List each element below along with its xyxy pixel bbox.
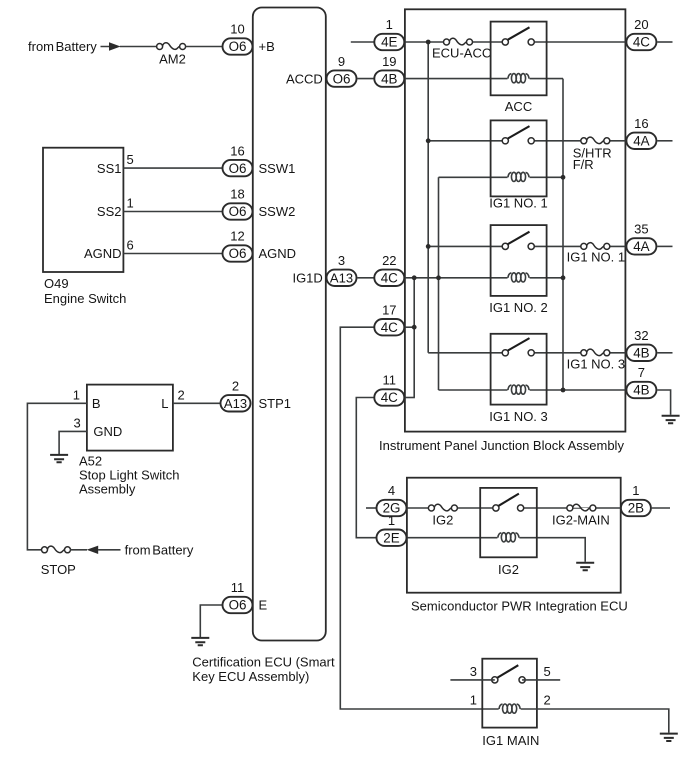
svg-text:IG2-MAIN: IG2-MAIN (552, 512, 610, 527)
wire IG1 NO.1 switch line (428, 140, 627, 142)
svg-text:SS2: SS2 (97, 204, 122, 219)
svg-text:1: 1 (470, 693, 477, 708)
svg-text:IG2: IG2 (432, 512, 453, 527)
fuse ECU-ACC (444, 38, 473, 45)
svg-text:SSW2: SSW2 (259, 204, 296, 219)
svg-text:A13: A13 (224, 396, 247, 411)
svg-text:1: 1 (388, 513, 395, 528)
node rail NO.1 switch (426, 138, 431, 143)
fuse IG2-MAIN (567, 504, 596, 511)
svg-text:Stop Light Switch: Stop Light Switch (79, 468, 179, 483)
relay IG1 NO. 3 (489, 334, 548, 424)
ground stop light switch (50, 455, 68, 462)
wire rail 4C17-4C11 (413, 278, 415, 398)
wire L to A13 (173, 402, 221, 404)
node 4C17 rail (412, 325, 417, 330)
svg-text:O6: O6 (229, 598, 247, 613)
svg-text:1: 1 (127, 196, 134, 211)
svg-text:IG1D: IG1D (292, 271, 322, 286)
Certification ECU box (253, 8, 326, 641)
svg-text:4A: 4A (633, 134, 649, 149)
wire GND pin to ground (59, 431, 87, 454)
ground IG2 (576, 563, 594, 570)
svg-text:5: 5 (544, 664, 551, 679)
svg-text:6: 6 (127, 238, 134, 253)
connector 4C pin 11 (374, 373, 404, 406)
ground IG1 MAIN (660, 734, 678, 741)
svg-text:2: 2 (544, 693, 551, 708)
svg-text:O6: O6 (229, 204, 247, 219)
wire AGND (123, 253, 223, 255)
svg-text:SSW1: SSW1 (259, 161, 296, 176)
svg-text:17: 17 (382, 302, 396, 317)
wire IG1 MAIN coil to ground (521, 709, 669, 733)
wire 2G stub (366, 507, 376, 509)
fuse S/HTR F/R (581, 137, 610, 144)
svg-text:Engine Switch: Engine Switch (44, 291, 126, 306)
connector O6 pin 10 (+B) (223, 22, 253, 55)
svg-text:O49: O49 (44, 276, 69, 291)
wire IG1 NO.1 coil line (439, 176, 564, 178)
wire IG1 NO.3 switch line (428, 352, 627, 354)
svg-text:AM2: AM2 (159, 52, 186, 67)
connector 4A pin 16 (626, 116, 672, 149)
connector 4A pin 35 (626, 222, 672, 255)
svg-text:5: 5 (127, 152, 134, 167)
svg-text:GND: GND (93, 424, 122, 439)
svg-text:STOP: STOP (41, 562, 76, 577)
svg-text:IG1 NO. 1: IG1 NO. 1 (567, 250, 626, 265)
wire 4C11 external to 2E (356, 398, 376, 538)
svg-text:O6: O6 (229, 161, 247, 176)
svg-text:L: L (161, 396, 168, 411)
wire IG1D to 4C (357, 277, 374, 279)
svg-text:4C: 4C (381, 271, 398, 286)
svg-text:19: 19 (382, 54, 396, 69)
svg-text:1: 1 (73, 387, 80, 402)
svg-text:1: 1 (386, 17, 393, 32)
label A52 Stop Light Switch Assembly (79, 454, 179, 497)
connector 2B pin 1 (621, 483, 670, 516)
connector 4C pin 17 (374, 302, 404, 335)
wire SS2 to SSW2 (123, 211, 223, 213)
wire 4C17 line inside block (405, 326, 415, 328)
pin 5 stub (522, 679, 560, 681)
svg-text:1: 1 (632, 483, 639, 498)
svg-text:Semiconductor PWR Integration: Semiconductor PWR Integration ECU (411, 598, 628, 613)
Semiconductor PWR Integration ECU box (407, 478, 621, 593)
wire rail 4E supply (427, 42, 429, 353)
svg-text:12: 12 (230, 229, 244, 244)
svg-text:4B: 4B (633, 346, 649, 361)
wire IG2 switch line (407, 507, 621, 509)
Stop Light Switch box A52 (87, 385, 173, 451)
svg-text:20: 20 (634, 17, 648, 32)
Engine Switch box O49 (43, 148, 123, 272)
connector O6 pin 9 (ACCD) (327, 54, 357, 87)
relay IG1 NO. 1 (489, 120, 548, 210)
wire IG1 NO.3 coil line to 4B7 (439, 389, 628, 391)
connector 4B pin 19 (374, 54, 404, 87)
label Certification ECU caption (192, 655, 335, 685)
relay IG1 MAIN (482, 659, 539, 748)
svg-text:4A: 4A (633, 239, 649, 254)
wire ACCD to 4B (357, 78, 374, 80)
svg-text:IG1 MAIN: IG1 MAIN (482, 733, 539, 748)
wire IG1 NO.2 coil line (405, 277, 563, 279)
svg-text:10: 10 (230, 22, 244, 37)
svg-text:ACCD: ACCD (286, 71, 323, 86)
svg-text:4C: 4C (381, 390, 398, 405)
svg-text:Certification ECU (Smart: Certification ECU (Smart (192, 655, 335, 670)
connector O6 pin 18 (SSW2) (223, 187, 253, 220)
svg-text:A52: A52 (79, 454, 102, 469)
wire 4C17 external (340, 327, 498, 709)
node 4E-rail (426, 40, 431, 45)
svg-text:3: 3 (338, 253, 345, 268)
svg-text:32: 32 (634, 328, 648, 343)
wire IG1 NO.2 switch line (428, 245, 627, 247)
svg-text:O6: O6 (229, 246, 247, 261)
arrow from Battery (109, 42, 121, 50)
fuse STOP (42, 546, 71, 553)
svg-text:+B: +B (259, 39, 275, 54)
svg-text:IG1 NO. 3: IG1 NO. 3 (567, 357, 626, 372)
svg-text:2: 2 (232, 379, 239, 394)
svg-text:22: 22 (382, 253, 396, 268)
svg-text:Key ECU Assembly): Key ECU Assembly) (192, 669, 309, 684)
node return NO.1 coil (561, 175, 566, 180)
connector A13 pin 3 (IG1D) (327, 253, 357, 286)
svg-text:11: 11 (383, 373, 397, 388)
svg-text:O6: O6 (333, 71, 351, 86)
wire 4C11 line inside block (405, 397, 415, 399)
svg-text:IG1 NO. 2: IG1 NO. 2 (489, 300, 548, 315)
connector O6 pin 11 (E) (223, 580, 253, 613)
svg-text:AGND: AGND (259, 246, 297, 261)
svg-text:18: 18 (230, 187, 244, 202)
arrow from Battery lower (87, 546, 99, 554)
svg-text:F/R: F/R (573, 157, 594, 172)
connector O6 pin 12 (AGND) (223, 229, 253, 262)
svg-text:4C: 4C (381, 320, 398, 335)
ground 4B7 (662, 416, 680, 423)
wire 4E line (351, 41, 627, 43)
connector 2G pin 4 (377, 483, 407, 516)
svg-text:4E: 4E (381, 35, 397, 50)
wire B pin down to STOP fuse (27, 403, 87, 550)
svg-text:4C: 4C (633, 35, 650, 50)
svg-text:B: B (92, 396, 101, 411)
svg-text:Instrument Panel Junction Bloc: Instrument Panel Junction Block Assembly (379, 438, 624, 453)
svg-text:from Battery: from Battery (125, 543, 194, 558)
svg-text:4B: 4B (381, 71, 397, 86)
connector 4B pin 32 (626, 328, 672, 361)
svg-text:Assembly: Assembly (79, 482, 136, 497)
svg-text:from Battery: from Battery (28, 39, 97, 54)
svg-text:ECU-ACC: ECU-ACC (432, 45, 491, 60)
connector 4B pin 7 (626, 365, 670, 415)
svg-text:2B: 2B (628, 501, 644, 516)
svg-text:IG1 NO. 3: IG1 NO. 3 (489, 409, 548, 424)
relay IG1 NO. 2 (489, 225, 548, 315)
svg-text:11: 11 (231, 580, 245, 595)
Instrument Panel Junction Block box (405, 9, 626, 431)
svg-text:IG1 NO. 1: IG1 NO. 1 (489, 196, 548, 211)
svg-text:STP1: STP1 (259, 396, 292, 411)
connector 4C pin 22 (374, 253, 404, 286)
fuse IG1 NO.3 (581, 349, 610, 356)
wire rail coils supply (438, 177, 440, 390)
svg-text:IG2: IG2 (498, 562, 519, 577)
svg-text:16: 16 (230, 143, 244, 158)
svg-text:E: E (259, 598, 268, 613)
svg-text:SS1: SS1 (97, 161, 122, 176)
svg-text:AGND: AGND (84, 246, 122, 261)
relay ACC (491, 22, 547, 114)
wire E pin to ground (200, 605, 223, 637)
connector O6 pin 16 (SSW1) (223, 143, 253, 176)
wire SS1 to SSW1 (123, 167, 223, 169)
wire ACC coil line (405, 78, 563, 80)
wire AM2 to connector (185, 46, 223, 48)
fuse IG1 NO.1 (581, 243, 610, 250)
node rail NO.2 switch (426, 244, 431, 249)
svg-text:7: 7 (638, 365, 645, 380)
label O49 Engine Switch (44, 276, 126, 306)
svg-text:3: 3 (470, 664, 477, 679)
svg-text:16: 16 (634, 116, 648, 131)
svg-text:4: 4 (388, 483, 395, 498)
svg-text:4B: 4B (633, 383, 649, 398)
node return NO.2 coil (561, 275, 566, 280)
connector 4C pin 20 (626, 17, 672, 50)
ground E (191, 638, 209, 645)
wire rail coil returns (562, 79, 564, 390)
label S/HTR F/R (573, 146, 612, 173)
connector 4E pin 1 (374, 17, 404, 50)
wire IG2 coil line (407, 538, 585, 562)
fuse IG2 (428, 504, 457, 511)
wire from Battery to AM2 (101, 46, 157, 48)
fuse AM2 (157, 43, 186, 50)
relay IG2 (480, 488, 537, 577)
svg-text:9: 9 (338, 54, 345, 69)
pin 3 stub (450, 679, 494, 681)
svg-text:A13: A13 (330, 270, 353, 285)
svg-text:O6: O6 (229, 39, 247, 54)
node return NO.3 coil (561, 388, 566, 393)
svg-text:2E: 2E (383, 530, 399, 545)
wire STOP fuse to arrow (70, 549, 120, 551)
svg-text:35: 35 (634, 222, 648, 237)
svg-text:2: 2 (178, 387, 185, 402)
node coil rail 4C22 (436, 275, 441, 280)
connector A13 pin 2 (STP1) (221, 379, 251, 412)
node 4C22 rail (412, 275, 417, 280)
svg-text:3: 3 (73, 415, 80, 430)
connector 2E pin 1 (377, 513, 407, 546)
svg-text:ACC: ACC (505, 99, 532, 114)
